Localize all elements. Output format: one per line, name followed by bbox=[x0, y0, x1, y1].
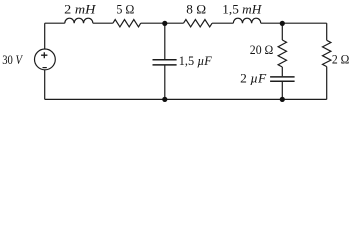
wire middle branch lower bbox=[164, 66, 166, 100]
wire between 8 ohm and 1,5 mH bbox=[212, 22, 233, 24]
svg-text:2 µF: 2 µF bbox=[240, 72, 266, 86]
svg-text:1,5 µF: 1,5 µF bbox=[179, 54, 212, 68]
wire right vertical bottom bbox=[326, 67, 328, 100]
resistor 8 ohm bbox=[184, 20, 213, 27]
svg-text:8 Ω: 8 Ω bbox=[186, 3, 206, 17]
wire left bottom bbox=[44, 70, 46, 100]
capacitor 1,5 uF top plate bbox=[153, 59, 177, 61]
wire between 20 ohm and 2 uF bbox=[281, 67, 283, 76]
resistor 5 ohm bbox=[113, 20, 141, 27]
resistor 2 ohm bbox=[323, 40, 331, 66]
wire right-middle branch lower bbox=[281, 82, 283, 100]
wire middle branch upper bbox=[164, 23, 166, 59]
capacitor 1,5 uF bottom plate bbox=[153, 64, 177, 66]
svg-text:20 Ω: 20 Ω bbox=[250, 43, 273, 57]
resistor 20 ohm bbox=[278, 40, 286, 67]
wire top-left segment bbox=[45, 22, 65, 24]
svg-text:1,5 mH: 1,5 mH bbox=[222, 2, 262, 16]
wire top-right segment bbox=[261, 22, 327, 24]
node junction dot bottom right-middle bbox=[280, 97, 285, 102]
svg-text:30 V: 30 V bbox=[2, 53, 23, 67]
source plus sign bbox=[41, 52, 47, 58]
wire between 5 ohm and 8 ohm bbox=[141, 22, 184, 24]
wire right vertical top bbox=[326, 23, 328, 40]
wire between 2 mH and 5 ohm bbox=[93, 22, 113, 24]
capacitor 2 uF top plate bbox=[270, 76, 295, 78]
inductor 2 mH bbox=[65, 18, 93, 23]
source V1 circle bbox=[35, 49, 56, 70]
node junction dot top right-middle bbox=[280, 21, 285, 26]
inductor 1,5 mH bbox=[233, 18, 260, 23]
wire right-middle branch upper bbox=[281, 23, 283, 40]
node junction dot bottom middle bbox=[162, 97, 167, 102]
svg-text:2 Ω: 2 Ω bbox=[332, 52, 350, 66]
wire left top bbox=[44, 23, 46, 49]
node junction dot top middle bbox=[162, 21, 167, 26]
capacitor 2 uF bottom plate bbox=[270, 80, 295, 82]
svg-text:5 Ω: 5 Ω bbox=[116, 3, 134, 17]
source minus sign bbox=[43, 67, 47, 69]
wire bottom bbox=[45, 98, 327, 100]
svg-text:2 mH: 2 mH bbox=[64, 2, 96, 16]
